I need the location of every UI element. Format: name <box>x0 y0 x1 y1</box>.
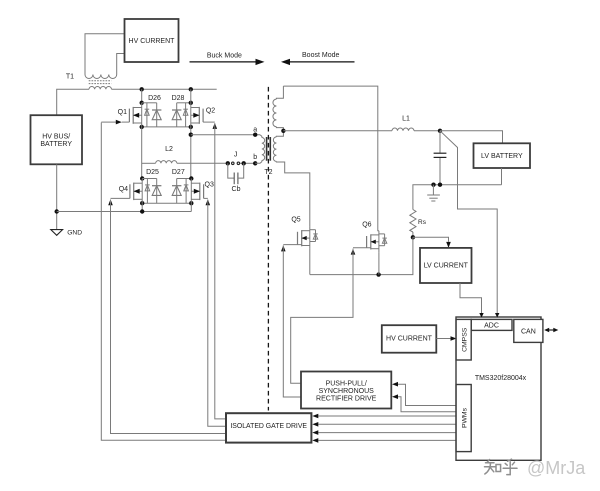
node - Q1 leg top <box>140 87 144 91</box>
body diode Q3 <box>184 179 189 204</box>
node b <box>253 154 257 165</box>
node - J left <box>226 161 230 165</box>
wire - Q5 source down <box>309 249 311 275</box>
wire - lower drain rail right <box>177 178 192 180</box>
wire - HV bus to bridge <box>112 88 217 90</box>
body diode Q4 <box>145 179 150 204</box>
svg-text:LV BATTERY: LV BATTERY <box>481 153 523 160</box>
svg-text:PWMs: PWMs <box>462 407 469 428</box>
block CAN <box>514 319 543 342</box>
wire - Q5 gate riser <box>283 245 301 397</box>
label Q3 <box>205 182 214 189</box>
svg-text:D28: D28 <box>172 95 185 102</box>
block HV CURRENT (sensor amp) <box>125 19 179 62</box>
wire - HV- rail <box>57 211 192 213</box>
wire - Rs node to source rail <box>310 237 413 274</box>
svg-text:Q6: Q6 <box>362 221 371 228</box>
svg-text:Rs: Rs <box>418 219 427 226</box>
node - Q2 source <box>189 125 193 129</box>
svg-text:L1: L1 <box>402 116 410 123</box>
wire - pwm to gatedrive 4 <box>312 438 456 443</box>
label D26 <box>148 95 161 102</box>
block ISOLATED GATE DRIVE <box>226 413 311 442</box>
block LV BATTERY <box>474 143 531 168</box>
svg-text:D27: D27 <box>172 169 185 176</box>
wire - Q1 gate drive <box>101 120 129 125</box>
wire - Rs to LV CURRENT <box>413 237 451 248</box>
wire - LV ground rail <box>413 185 502 238</box>
transistor Q2 <box>191 103 203 127</box>
wire - HV current sensor loop right <box>117 54 125 75</box>
transistor Q6 <box>367 231 379 252</box>
inductor L2 <box>156 161 177 164</box>
wire - centre tap to L1 <box>283 130 392 132</box>
transformer T1 sense winding <box>85 75 117 79</box>
wire - Q3 gate arrow <box>206 199 211 205</box>
wire - Q4 gate arrow <box>108 199 113 205</box>
wire - pwm to gatedrive 2 <box>312 422 456 427</box>
svg-text:Buck Mode: Buck Mode <box>207 53 242 60</box>
svg-text:Q2: Q2 <box>206 108 215 115</box>
svg-text:b: b <box>253 154 257 161</box>
wire - Q1 gate riser <box>101 123 226 441</box>
capacitor Cb <box>234 173 238 185</box>
svg-text:Boost Mode: Boost Mode <box>302 52 339 59</box>
wire - Q4 gate riser <box>111 200 227 434</box>
svg-text:a: a <box>253 126 257 133</box>
wire - Q3 source to bus <box>190 203 192 211</box>
wire - Q1 source to L2 <box>141 127 143 179</box>
wire - pwm to pushpull 2 <box>392 394 457 411</box>
block MCU TMS320f28004x <box>456 317 541 460</box>
ground LV symbol <box>427 185 440 201</box>
node - LV+ node <box>438 129 442 133</box>
node - Q6 source junction <box>376 272 380 276</box>
wire - T2 secondary centre tap <box>276 127 283 137</box>
wire - HV- down <box>56 164 58 229</box>
svg-text:CMPSS: CMPSS <box>462 327 469 352</box>
capacitor Cb branch right <box>238 163 244 178</box>
wire - T2 primary bottom lead <box>255 161 262 164</box>
wire - Q1 drain feed <box>141 89 143 103</box>
block ADC <box>471 319 512 330</box>
wire - HV+ bus <box>57 89 89 115</box>
svg-text:SYNCHRONOUS: SYNCHRONOUS <box>319 388 375 395</box>
connector J <box>232 151 240 164</box>
svg-text:Q3: Q3 <box>205 182 214 189</box>
node - bus junction <box>140 209 144 213</box>
wire - LV CURRENT to ADC <box>460 283 482 314</box>
wire - T2 primary top lead <box>260 135 262 138</box>
svg-text:BATTERY: BATTERY <box>40 141 72 148</box>
svg-text:LV CURRENT: LV CURRENT <box>424 263 469 270</box>
label Q1 <box>118 109 127 116</box>
wire - T2 secondary top terminal <box>276 86 283 99</box>
transistor Q4 <box>130 179 142 204</box>
body diode Q1 <box>145 103 150 127</box>
label Q2 <box>206 108 215 115</box>
wire - Q3 gate lead <box>204 197 208 199</box>
wire - pwm to pushpull 1 <box>392 382 457 406</box>
block HV BUS/BATTERY <box>31 115 83 164</box>
wire - T2 secondary bottom terminal <box>276 161 309 226</box>
svg-text:HV CURRENT: HV CURRENT <box>386 335 433 342</box>
svg-text:ADC: ADC <box>484 322 499 329</box>
node - Q3 drain <box>189 176 193 180</box>
svg-text:CAN: CAN <box>521 328 536 335</box>
wire - Q2 gate riser <box>215 123 226 419</box>
body diode Q6 <box>379 234 387 246</box>
wire - L2 rail left <box>142 162 156 164</box>
wire - LV- from battery <box>501 168 503 185</box>
label T2 <box>264 169 272 176</box>
node - HV- rail <box>55 209 59 213</box>
transformer T1 core <box>89 81 112 84</box>
label Q6 <box>362 221 371 228</box>
svg-text:ISOLATED GATE DRIVE: ISOLATED GATE DRIVE <box>230 423 307 430</box>
resistor Rs <box>410 210 416 233</box>
svg-text:J: J <box>234 151 238 158</box>
label L1 <box>402 116 410 123</box>
arrow Boost Mode <box>281 52 355 65</box>
label Rs <box>418 219 427 226</box>
capacitor C-LV <box>434 153 447 157</box>
diode D25 <box>152 179 161 204</box>
capacitor C-LV leads <box>439 131 441 185</box>
wire - Q6 source down <box>378 252 380 275</box>
svg-text:Q4: Q4 <box>119 186 128 193</box>
node - Q3 source <box>189 201 193 205</box>
node - J right <box>242 161 246 165</box>
wire - Q2 drain feed <box>190 89 192 103</box>
label Q4 <box>119 186 128 193</box>
node - Q2 leg top <box>189 87 193 91</box>
node - gnd rail b <box>438 183 442 187</box>
transformer T1 primary winding <box>89 86 112 89</box>
block HV CURRENT (LV side sensor) <box>382 325 437 353</box>
node - gnd rail a <box>431 183 435 187</box>
wire - Q4 gate lead <box>111 197 130 199</box>
ground GND symbol <box>51 230 82 237</box>
wire - Q6 gate arrow <box>351 249 356 255</box>
svg-text:PUSH-PULL/: PUSH-PULL/ <box>326 380 367 387</box>
wire - node a horizontal <box>191 134 260 136</box>
wire - L2 rail right <box>177 162 230 164</box>
node - Q4 source <box>140 201 144 205</box>
svg-text:T1: T1 <box>66 74 74 81</box>
wire - upper drain rail left <box>142 102 157 104</box>
svg-text:HV CURRENT: HV CURRENT <box>129 38 176 45</box>
wire - pwm to gatedrive 1 <box>312 414 456 419</box>
svg-text:Q5: Q5 <box>291 217 300 224</box>
svg-text:Cb: Cb <box>232 186 241 193</box>
transistor Q3 <box>191 179 203 204</box>
body diode Q2 <box>183 103 188 127</box>
transformer T2 core <box>267 137 271 161</box>
wire - Q2 gate lead <box>203 121 215 123</box>
wire - ADC arrow 1 <box>479 313 483 318</box>
wire - HV current sensor loop left <box>85 34 125 75</box>
node a <box>253 126 257 137</box>
svg-text:D26: D26 <box>148 95 161 102</box>
wire - HV CURRENT to CMPSS <box>436 336 456 341</box>
label Cb <box>232 186 241 193</box>
transistor Q5 <box>298 227 310 249</box>
label D28 <box>172 95 185 102</box>
wire - Q5 gate arrow <box>281 245 286 251</box>
svg-text:T2: T2 <box>264 169 272 176</box>
isolation boundary (dashed) <box>267 87 269 411</box>
node - bridge mid right <box>189 133 193 137</box>
label L2 <box>165 146 173 153</box>
diode D27 <box>172 179 181 204</box>
wire - Q2 gate riser arrow <box>213 123 218 129</box>
node - Rs bottom <box>411 235 415 239</box>
svg-text:HV BUS/: HV BUS/ <box>42 134 70 141</box>
wire - ADC arrow 2 <box>495 313 499 318</box>
wire - Q6 gate lead <box>353 247 371 249</box>
wire - Q6 gate riser <box>291 249 353 384</box>
label Q5 <box>291 217 300 224</box>
svg-text:@MrJa: @MrJa <box>527 458 586 478</box>
node - Q1 source <box>140 125 144 129</box>
inductor L1 <box>392 128 414 131</box>
wire - pwm to gatedrive 3 <box>312 430 456 435</box>
svg-text:RECTIFIER DRIVE: RECTIFIER DRIVE <box>316 395 377 402</box>
diode D28 <box>172 103 181 127</box>
wire - upper source rail <box>142 126 191 128</box>
node - centre tap <box>281 129 285 133</box>
block CMPSS <box>456 319 471 360</box>
transistor Q1 <box>129 103 141 127</box>
wire - Q5 gate lead <box>283 244 301 246</box>
svg-text:L2: L2 <box>165 146 173 153</box>
body diode Q5 <box>310 230 318 242</box>
wire - CAN bus arrow <box>544 328 558 333</box>
wire - node a link <box>190 127 192 179</box>
transformer T2 secondary top winding <box>273 99 276 127</box>
label D27 <box>172 169 185 176</box>
capacitor Cb branch left <box>228 163 234 178</box>
block PUSH-PULL/SYNCHRONOUS RECTIFIER DRIVE <box>301 372 391 409</box>
block PWMs <box>456 385 471 452</box>
wire - Q4 source to bus <box>141 203 143 211</box>
svg-text:D25: D25 <box>146 169 159 176</box>
arrow Buck Mode <box>190 53 265 66</box>
wire - T2 top to Q6 drain <box>283 86 379 231</box>
wire - upper drain rail right <box>177 102 191 104</box>
transformer T2 primary winding <box>262 138 265 161</box>
wire - Q3 gate riser <box>208 200 226 427</box>
svg-text:Q1: Q1 <box>118 109 127 116</box>
diode D26 <box>152 103 161 127</box>
wire - lower drain rail left <box>142 178 157 180</box>
wire - LV battery sense diag <box>440 131 497 314</box>
label D25 <box>146 169 159 176</box>
node - Q2 drain <box>189 101 193 105</box>
node - Q1 drain <box>140 101 144 105</box>
wire - L1 to node <box>414 130 440 132</box>
svg-text:GND: GND <box>67 230 82 237</box>
wire - J right <box>240 162 255 164</box>
wire - lower source rail <box>142 202 191 204</box>
transformer T2 secondary bottom winding <box>273 137 276 162</box>
svg-text:TMS320f28004x: TMS320f28004x <box>475 375 527 382</box>
block LV CURRENT <box>420 248 472 283</box>
node - Q4 drain <box>140 176 144 180</box>
wire - LV+ to battery <box>440 131 503 144</box>
label T1 <box>66 74 74 81</box>
watermark <box>485 458 587 478</box>
